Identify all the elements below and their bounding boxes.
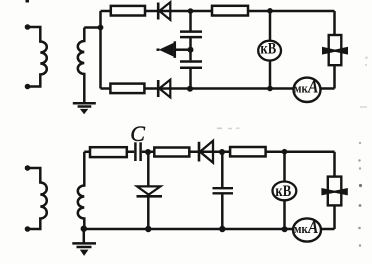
svg-text:А: А (307, 217, 318, 237)
svg-text:А: А (307, 77, 318, 97)
svg-text:кВ: кВ (275, 183, 291, 200)
svg-text:мк: мк (294, 81, 308, 96)
svg-text:кВ: кВ (260, 40, 276, 57)
svg-text:C: C (130, 121, 145, 146)
svg-text:мк: мк (294, 221, 308, 236)
